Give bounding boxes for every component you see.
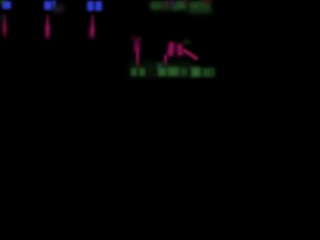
label tr g2 <box>177 1 186 9</box>
ground green wash bottom <box>129 62 193 78</box>
diode magenta diagonal <box>182 49 198 61</box>
wire streak A <box>3 13 6 38</box>
node streak B core <box>45 25 50 37</box>
label tr faint row2 <box>188 8 213 14</box>
label tr dark red mid <box>183 0 189 4</box>
label top-right green band <box>149 1 209 11</box>
label tr dark red corner <box>203 0 212 4</box>
transistor magenta streak 2 <box>136 49 139 68</box>
label tr olive <box>162 1 170 9</box>
transistor magenta streak 4 <box>167 42 175 57</box>
label bottom g3 <box>158 68 166 77</box>
transistor magenta blob 1 top <box>134 40 140 51</box>
wire streak B <box>46 14 49 40</box>
node A blue glyph <box>2 1 11 10</box>
label bottom g6 <box>191 67 201 77</box>
capacitor red smear <box>131 37 142 41</box>
label bottom g7 <box>202 68 213 77</box>
haze B <box>53 5 64 12</box>
node A green tinge <box>0 0 5 4</box>
transistor magenta blob 5 <box>176 44 183 57</box>
label bottom g2 <box>139 68 145 76</box>
wire left edge green <box>0 14 2 26</box>
node B blue glyph lobe1 <box>44 1 52 10</box>
node streak A core <box>3 24 8 34</box>
label tr purple <box>169 0 175 7</box>
label tr teal <box>172 3 179 10</box>
label tr g4 corner <box>199 1 210 11</box>
node C blue glyph lobe2 <box>95 1 102 11</box>
label tr g3 <box>190 2 200 11</box>
node C blue glyph lobe1 <box>87 1 94 11</box>
label bottom g8 <box>210 68 215 76</box>
label bottom g4 <box>167 67 179 76</box>
label bottom g1 <box>131 68 137 76</box>
wire streak C <box>91 14 94 38</box>
label tr g1 <box>151 2 162 9</box>
node B blue glyph lobe2 <box>52 0 57 10</box>
transistor magenta streak 3 <box>164 55 167 68</box>
label bottom g5 <box>180 68 187 76</box>
node streak C core <box>89 27 95 38</box>
label bottom teal <box>157 63 163 70</box>
wire faint green wisp <box>183 40 190 44</box>
